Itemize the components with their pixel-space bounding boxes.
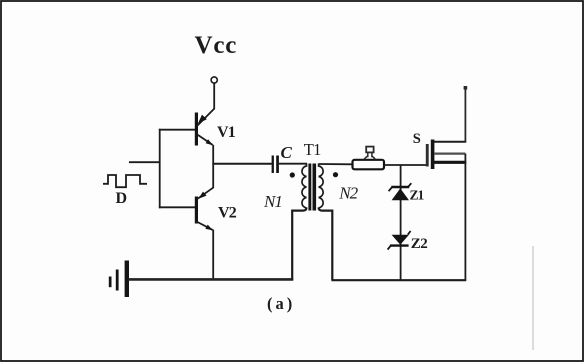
svg-text:Z2: Z2	[411, 236, 428, 252]
resistor R	[353, 160, 385, 170]
svg-text:N2: N2	[338, 183, 358, 202]
MOSFET S source lead	[433, 161, 467, 164]
svg-text:T1: T1	[304, 140, 321, 159]
wire ground rail left	[128, 278, 293, 281]
wire N2 bottom lead	[319, 208, 333, 281]
wire T1 to resistor R	[319, 163, 353, 165]
svg-text:N1: N1	[263, 192, 282, 211]
wire zener branch vertical	[400, 165, 402, 281]
wire V1 base	[159, 129, 195, 131]
capacitor C	[272, 156, 279, 174]
svg-text:C: C	[281, 143, 293, 162]
svg-text:D: D	[116, 190, 128, 207]
input square wave symbol	[103, 175, 147, 187]
terminal Vcc	[211, 77, 217, 83]
wire V2 base	[159, 206, 195, 208]
zener Z1	[389, 183, 412, 200]
MOSFET S channel bar	[431, 140, 435, 170]
transistor V2	[195, 187, 214, 230]
ground symbol	[109, 261, 129, 298]
transistor V1	[195, 109, 215, 146]
MOSFET S drain lead	[434, 141, 466, 143]
wire base bus vertical	[159, 129, 161, 208]
wire V1 emitter down	[212, 145, 214, 164]
scan artifact line	[532, 246, 534, 350]
wire source down	[464, 154, 466, 281]
wire input D	[129, 161, 161, 163]
wire capacitor to T1	[279, 163, 307, 165]
wire ground rail right	[331, 279, 466, 281]
svg-text:Vcc: Vcc	[195, 32, 238, 59]
svg-text:V1: V1	[217, 124, 236, 141]
svg-text:S: S	[413, 131, 421, 147]
wire Vcc to V1 collector	[213, 84, 215, 110]
wire output node to V2 collector	[212, 163, 214, 188]
wire output to capacitor	[213, 163, 272, 165]
wire R to gate	[384, 164, 427, 166]
zener Z2	[388, 231, 411, 250]
label R	[364, 147, 375, 159]
transformer T1 secondary winding N2	[319, 164, 324, 209]
wire V2 emitter to ground rail	[212, 230, 214, 281]
MOSFET S gate bar	[426, 144, 429, 167]
MOSFET S body lead	[434, 153, 465, 155]
svg-text:(a): (a)	[267, 294, 295, 313]
transformer T1 core	[308, 164, 316, 211]
wire N1 bottom lead	[292, 208, 306, 280]
transformer T1 primary winding N1	[302, 164, 307, 209]
wire drain up	[464, 86, 466, 143]
svg-text:Z1: Z1	[410, 188, 425, 203]
svg-text:V2: V2	[218, 205, 237, 222]
polarity dot primary	[290, 172, 295, 177]
polarity dot secondary	[333, 172, 338, 177]
